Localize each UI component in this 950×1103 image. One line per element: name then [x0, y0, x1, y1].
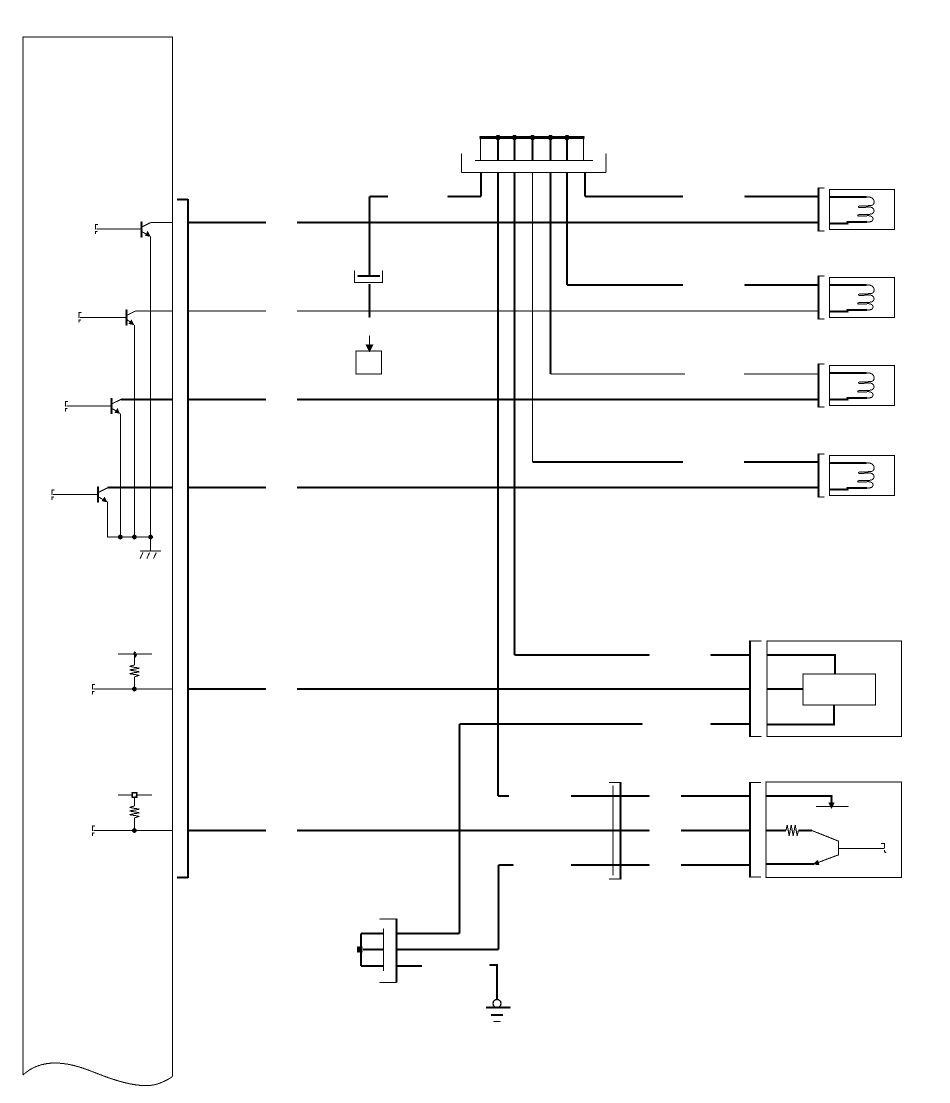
wire row5 right (to solenoid connector)	[188, 688, 750, 690]
wire: pin to injector 2 upper pin	[566, 173, 568, 286]
ECU box (left, with torn wavy bottom)	[23, 37, 173, 1076]
solenoid valve unit (right middle)	[750, 641, 902, 738]
transistor Q3	[66, 398, 122, 537]
wire row3 right (to injector 3 lower pin)	[188, 398, 819, 400]
ground (ECU internal chassis ground)	[140, 537, 161, 559]
injector 3	[819, 364, 895, 408]
transistor Q2	[79, 310, 136, 537]
wire: pin to injector 3 upper pin	[550, 173, 552, 375]
transistor Q4	[52, 487, 108, 537]
junction dot	[132, 687, 137, 692]
wire: housing left leg to capacitor (broken)	[480, 173, 482, 197]
connector bar (ECU multi-pin connector)	[187, 199, 189, 878]
wire row4 left	[108, 486, 173, 488]
wire row4 right (to injector 4 lower pin)	[188, 486, 819, 488]
injector 2	[819, 276, 895, 320]
injector 4	[819, 454, 895, 498]
wire row2 left	[136, 310, 173, 312]
junction dot	[118, 535, 123, 540]
wire row6 left with end hook	[93, 826, 96, 836]
wire row2 right (to injector 2 lower pin)	[188, 310, 819, 312]
noise filter (bottom center)	[357, 919, 422, 983]
wire row5 left with end hook	[93, 684, 96, 694]
junction dot	[132, 535, 137, 540]
wire row1 right (to injector 1 lower pin)	[188, 222, 819, 224]
wire: pin to injector 4 upper pin	[532, 173, 534, 463]
resistor R2 (pull-up inside ECU)	[118, 793, 152, 831]
junction dot	[132, 828, 137, 833]
wire: pin down to igniter top feed (broken)	[497, 173, 499, 797]
junction dot	[148, 535, 153, 540]
wire: noise filter top to solenoid bottom feed	[397, 933, 460, 935]
capacitor C1 (condenser)	[355, 197, 383, 318]
distributor connector housing (top center)	[462, 135, 607, 173]
wire row1 left (Q1 collector to ECU edge)	[151, 222, 173, 224]
mid connector (double line, before igniter)	[609, 782, 621, 880]
injector 1	[819, 188, 895, 232]
wire: pin down to solenoid upper feed	[514, 173, 516, 655]
resistor R1 (pull-up inside ECU)	[118, 652, 152, 689]
transistor Q1	[96, 221, 151, 537]
wire: igniter bottom feed from noise filter	[499, 864, 751, 866]
igniter unit (bottom right)	[750, 782, 902, 877]
sensor box with arrow (signal into unit)	[356, 336, 382, 374]
wire row3 left	[121, 398, 172, 400]
wire: housing right leg to injector 1 upper pin (broken)	[584, 173, 586, 197]
emitter bus wire	[107, 536, 151, 538]
wire row6 right (to igniter, broken)	[188, 830, 750, 832]
ground (bottom, with bolt circle)	[486, 965, 511, 1022]
